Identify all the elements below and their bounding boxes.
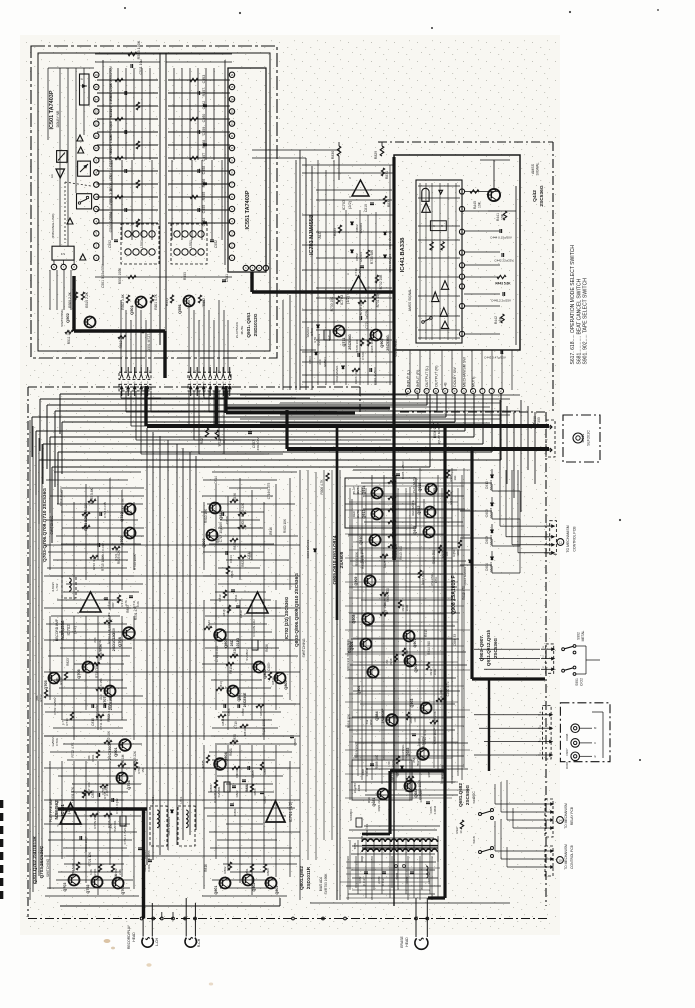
svg-text:R501 4.7K: R501 4.7K [154,293,158,309]
svg-text:Q805: Q805 [284,680,288,689]
svg-text:R722 4.7K: R722 4.7K [71,742,75,758]
svg-text:R551: R551 [165,298,169,306]
svg-text:8.2K: 8.2K [136,601,140,607]
svg-text:ERASE: ERASE [400,936,404,948]
wire [30,420,42,900]
svg-text:2.2K: 2.2K [118,869,122,875]
transistor Q808 [214,629,240,648]
resistor R927b [455,820,464,834]
op-amp IC702(1/2) [77,589,101,615]
svg-text:C682: C682 [358,876,362,883]
resistor R824 [238,519,246,529]
svg-text:Q901: Q901 [114,746,118,756]
node RGAIN [252,619,256,637]
svg-text:R513 100K: R513 100K [137,40,141,59]
svg-text:MECHANISM SW: MECHANISM SW [462,357,466,387]
node G box [80,74,90,105]
wire [58,809,147,919]
resistor R921 [380,602,388,617]
svg-text:Q801: Q801 [214,886,218,895]
node caption IC702R [284,596,289,639]
svg-text:R821: R821 [230,570,234,578]
svg-text:R445: R445 [473,201,477,209]
resistor R441 [496,211,507,221]
diode D902 [335,365,344,383]
resistor R688 [406,712,417,723]
resistor R827 [200,428,209,444]
capacitor C501 [95,263,232,288]
node SVR801 [213,782,230,803]
svg-text:R913 390: R913 390 [399,546,403,560]
svg-text:HEAD: HEAD [132,932,136,942]
svg-text:15K: 15K [141,767,145,772]
svg-text:Q502: Q502 [65,312,70,322]
svg-text:GMA01: GMA01 [489,479,493,490]
svg-text:C502: C502 [108,240,112,248]
node CN14 label [557,803,574,829]
capacitor C801 [230,804,237,816]
op-amp IC501 pins [94,72,99,260]
svg-text:C687: C687 [405,876,409,883]
resistor R502 [121,293,130,309]
svg-text:R703 5.6K: R703 5.6K [71,863,75,877]
transistor Q902 [371,330,391,351]
svg-text:R914 390: R914 390 [441,765,445,779]
resistor R803 [263,864,270,876]
transistor Q708 [112,627,135,651]
svg-text:C809: C809 [241,708,245,715]
svg-text:R925 15K: R925 15K [383,553,387,568]
svg-text:68P: 68P [111,602,115,607]
svg-text:F.S: F.S [61,252,65,256]
switch S617 [472,796,494,819]
diode D802 [351,222,363,233]
transistor Q904 [357,667,379,695]
svg-text:S681: S681 [395,872,399,879]
resistor R832 [383,196,391,207]
resistor R733 [366,250,374,264]
resistor R935 [446,470,457,482]
svg-text:R835: R835 [201,760,205,767]
svg-text:C442 22u/25V: C442 22u/25V [494,259,513,263]
wire [318,160,390,385]
svg-text:C909 100P: C909 100P [418,780,422,796]
resistor R826 [230,493,238,503]
svg-text:Q904: Q904 [357,686,361,695]
node L681 [426,866,431,884]
svg-text:Q709: Q709 [120,536,124,545]
svg-text:C810: C810 [239,610,243,617]
svg-text:C444 0.15u/50V: C444 0.15u/50V [490,236,512,240]
svg-text:C557: C557 [202,153,206,162]
svg-text:METAL: METAL [581,630,585,641]
node legend [570,245,589,365]
resistor R501 [150,293,158,309]
resistor R713 [96,677,104,692]
resistor R925 [380,553,388,568]
svg-text:6.8K: 6.8K [89,869,93,875]
svg-text:Q702: Q702 [86,885,90,894]
capacitor C703 [80,836,88,852]
diode D501 [142,328,151,351]
resistor R906 [320,473,329,495]
node caption RECAMP [55,618,77,641]
resistor R902 [104,730,112,745]
resistor R445 [470,190,482,209]
op-amp IC441 pins [459,189,464,337]
svg-text:2SC536E: 2SC536E [243,692,247,707]
node DOLBY-PCB [31,46,277,358]
svg-text:Q705: Q705 [44,680,48,689]
svg-text:2SC536G: 2SC536G [539,185,545,206]
capacitor C714 [98,543,105,559]
op-amp internal [50,135,86,260]
svg-text:R716 330K: R716 330K [99,643,103,660]
svg-text:R836: R836 [233,734,237,742]
resistor R911 [436,689,444,702]
svg-text:ASELINE: ASELINE [430,574,434,586]
resistor R819 [218,590,227,602]
svg-text:R: R [441,225,443,228]
node IC501 label [49,90,60,129]
wire [378,141,553,143]
svg-text:SIGNAL: SIGNAL [536,163,540,176]
node slash box [57,151,67,163]
svg-text:IC703: IC703 [339,294,344,305]
svg-text:1u/50V: 1u/50V [51,737,55,746]
node caption Q903 [479,629,498,666]
svg-text:C716 0.075: C716 0.075 [267,483,271,500]
svg-text:SVR701: SVR701 [113,820,117,831]
diode D703 [306,325,319,337]
node CN10 label [557,844,574,870]
svg-text:D803: D803 [308,356,312,364]
node erase head [400,936,428,950]
node SVR704 [313,330,330,346]
resistor R927 [418,570,425,585]
wire [224,60,226,265]
svg-text:+B: +B [444,382,448,387]
resistor R734 [104,612,112,643]
capacitor C805 [248,766,255,778]
svg-text:R721 12K: R721 12K [88,851,92,866]
svg-text:SVR703 100K: SVR703 100K [324,873,328,895]
svg-text:Q704: Q704 [127,780,131,790]
svg-text:HEAD: HEAD [405,937,409,947]
svg-text:R910 10K: R910 10K [204,508,208,523]
transistor Q709 [120,528,136,546]
svg-text:R707 10K: R707 10K [87,781,91,796]
node connector J551 [188,367,231,396]
switch S618 [472,836,494,857]
svg-text:2SC536G: 2SC536G [386,335,390,351]
svg-text:C683: C683 [377,876,381,883]
node IO terminals [405,357,503,394]
resistor R708 [82,790,85,798]
resistor R831 [381,168,389,179]
op-amp IC501 pins bottom [51,264,77,269]
svg-text:Q711: Q711 [342,338,346,347]
node speck [124,7,658,760]
node D682 [427,770,431,777]
svg-text:R681 22: R681 22 [377,800,381,811]
capacitor R506 [97,174,230,191]
svg-text:PLAY MUTE: PLAY MUTE [412,477,416,494]
transistor Q805 [275,673,289,690]
transistor Q806 [254,662,268,679]
svg-text:R912 470: R912 470 [462,586,466,600]
svg-text:C719: C719 [234,721,238,729]
capacitor C906 [290,736,297,746]
inductor L701 [150,796,167,846]
svg-text:S901. 902..... TAPE SELECT SWI: S901. 902..... TAPE SELECT SWITCH [583,278,589,365]
transistor Q914 [352,486,383,499]
wire [240,395,535,512]
node IC551 label [245,190,251,229]
resistor R724 [82,502,90,517]
resistor R806 [250,784,257,795]
svg-text:L-CH: L-CH [155,938,159,946]
resistor R919 [402,648,409,662]
svg-text:H: H [472,390,474,394]
wire [159,53,161,345]
op-amp gate6 [440,308,447,317]
svg-text:AMSS SIGNAL: AMSS SIGNAL [408,289,412,312]
op-amp IC702(2/2) [244,589,268,616]
node caption Q801 [299,866,311,890]
svg-text:R823: R823 [66,658,70,666]
svg-text:C717 10u/16V: C717 10u/16V [219,521,223,542]
wire [472,677,545,680]
node C685 [426,802,437,814]
node ASELINE [430,574,438,586]
svg-text:Q701.Q702 2SD1011R: Q701.Q702 2SD1011R [32,836,37,884]
node labels2 [347,484,466,796]
svg-text:22K: 22K [93,636,97,642]
svg-text:R441: R441 [496,213,500,221]
resistor R714 [55,672,68,685]
svg-text:L702: L702 [55,583,59,590]
resistor R930 [388,524,396,539]
transistor Q903 [410,699,432,714]
wire [50,478,290,895]
svg-text:CONTROL PCB: CONTROL PCB [570,844,574,868]
svg-text:C709 1u/50V: C709 1u/50V [53,697,57,714]
svg-text:2SD1012G: 2SD1012G [112,633,116,652]
svg-text:F: F [454,390,456,394]
svg-text:R710: R710 [65,718,69,725]
svg-text:G: G [81,77,83,81]
svg-text:Q903: Q903 [410,699,414,708]
inductor L801 [178,796,195,846]
transistor Q683 [401,744,429,766]
svg-text:R713 15K: R713 15K [99,677,103,692]
svg-text:R721 12K: R721 12K [114,546,118,561]
svg-text:R826: R826 [265,644,269,652]
wire [392,157,395,560]
op-amp PREAMP [57,800,81,827]
capacitor C814 [226,551,233,563]
svg-text:A: A [407,390,409,394]
svg-text:C805: C805 [251,770,255,777]
svg-text:330u/10V: 330u/10V [256,436,260,450]
svg-text:(1/2): (1/2) [73,625,77,633]
transistor Q681 [367,789,389,812]
capacitor C444 [490,229,512,240]
svg-text:Q909: Q909 [354,577,358,586]
svg-text:C501 0.33u/50V: C501 0.33u/50V [101,263,105,288]
capacitor C811 [231,590,238,601]
svg-text:TO MECHANISM: TO MECHANISM [564,803,568,829]
svg-text:C910 4.7u: C910 4.7u [446,681,450,696]
resistor R687 [430,711,438,725]
svg-text:R826: R826 [233,493,237,501]
svg-text:Q703-Q706.Q709.Q710 2SC536G: Q703-Q706.Q709.Q710 2SC536G [42,488,48,562]
capacitor C720 [358,352,365,360]
svg-text:R819: R819 [218,594,222,601]
capacitor C509 [97,122,230,141]
node internal link [51,182,91,243]
svg-text:C562: C562 [202,101,206,110]
svg-text:S618: S618 [472,836,476,843]
wire [345,470,470,798]
node S681 [395,865,406,880]
svg-text:D907: D907 [565,748,569,755]
svg-text:GMA01: GMA01 [359,222,363,233]
svg-text:0.0056: 0.0056 [105,786,109,795]
svg-text:C819: C819 [364,204,368,212]
svg-text:R921 15A: R921 15A [383,602,387,617]
node D912 [463,560,471,585]
svg-text:R802: R802 [223,866,227,873]
svg-text:C816: C816 [225,516,229,524]
capacitor C907 [248,432,260,451]
svg-text:R801: R801 [245,868,249,875]
capacitor C507 [97,161,230,180]
svg-text:C704 0.012: C704 0.012 [115,798,119,814]
diode D909 [485,497,493,519]
svg-text:GMA01: GMA01 [306,326,310,337]
svg-text:R827: R827 [200,436,204,444]
resistor R711 [96,713,104,729]
capacitor C441 [484,350,506,360]
svg-text:Q681.Q682: Q681.Q682 [458,783,463,807]
wire [165,53,167,345]
svg-text:R915: R915 [434,484,438,492]
resistor R712 [35,690,48,702]
svg-text:Q903~Q907.: Q903~Q907. [479,635,484,662]
resistor R811 [218,714,226,725]
resistor R552 [198,295,206,306]
wire [60,68,84,246]
svg-text:R916 15K: R916 15K [347,713,351,728]
wire [285,410,288,449]
svg-text:C558: C558 [202,166,206,175]
node connector J911 [545,420,555,457]
svg-text:10K: 10K [445,551,449,556]
svg-text:PLAY PRE AMP: PLAY PRE AMP [49,797,53,822]
diode D904 [485,551,493,573]
capacitor C808 [224,704,231,716]
svg-text:R GAIN ADJ: R GAIN ADJ [252,619,256,637]
svg-text:R688 10K: R688 10K [394,543,398,558]
svg-text:C706: C706 [55,738,59,746]
svg-text:C445 2.2u/25V: C445 2.2u/25V [491,299,511,303]
svg-text:R834: R834 [207,620,211,628]
node connector CN11 [544,521,556,555]
wire [470,449,473,679]
svg-text:R931 47K: R931 47K [71,786,75,801]
svg-text:C801: C801 [233,808,237,815]
svg-text:C905 1u/50V: C905 1u/50V [401,460,405,479]
svg-text:R814: R814 [271,677,275,684]
resistor R830 [331,146,341,159]
diode D906-D908 block [560,703,610,769]
svg-text:R813: R813 [219,681,223,689]
wire [495,780,540,867]
svg-text:R809: R809 [235,770,239,778]
svg-text:C909 100P: C909 100P [433,728,437,744]
svg-text:IC501 TA7403P: IC501 TA7403P [49,90,55,129]
diode D701 [384,253,392,272]
svg-text:10K: 10K [222,438,226,444]
svg-text:SWR803: SWR803 [349,809,353,821]
svg-text:2SC536G: 2SC536G [493,637,498,658]
inductor L551 [171,224,207,264]
capacitor C445 [491,292,511,303]
transistor Q807 [228,686,248,708]
svg-text:D908: D908 [565,733,569,740]
svg-text:R-CH: R-CH [197,938,201,947]
node connector CN10 [540,846,554,876]
svg-text:NJM4558: NJM4558 [60,620,65,640]
svg-text:C506 0.0056: C506 0.0056 [109,212,113,233]
svg-text:R825 22K: R825 22K [241,502,245,517]
wire [147,428,196,865]
svg-text:SVR801: SVR801 [217,786,221,797]
capacitor C442 [494,253,513,263]
svg-text:RELAY PCB: RELAY PCB [570,806,574,825]
svg-text:D911: D911 [581,434,585,443]
wire [283,150,312,390]
node caption Q803 [294,573,306,658]
op-amp IC703 (1/2) [347,272,370,296]
svg-text:R711 100K: R711 100K [99,713,103,729]
transistor Q809 [202,530,218,548]
svg-text:R683 1.5K: R683 1.5K [391,767,395,783]
svg-text:C808: C808 [91,790,95,798]
wire [252,150,340,158]
svg-text:(PLAY MUTE): (PLAY MUTE) [437,424,441,443]
op-amp gate5 [432,292,439,302]
resistor R685 [406,776,414,789]
resistor R701 [89,864,102,876]
svg-text:R723 8.2K: R723 8.2K [84,514,88,530]
svg-text:2SC536G: 2SC536G [108,744,112,760]
svg-text:C555: C555 [202,205,206,214]
capacitor C512 [97,92,230,117]
svg-text:N: N [594,754,596,758]
svg-text:R920 100K: R920 100K [262,718,266,735]
svg-text:SW: SW [365,719,369,724]
svg-text:R829: R829 [374,151,378,159]
svg-text:IC701 (1/2): IC701 (1/2) [288,801,293,822]
transistor Q907 [404,631,418,648]
wire [400,411,546,413]
resistor R833 [333,225,342,236]
svg-text:MUTE: MUTE [240,326,244,335]
svg-text:COUPLING: COUPLING [401,744,405,760]
